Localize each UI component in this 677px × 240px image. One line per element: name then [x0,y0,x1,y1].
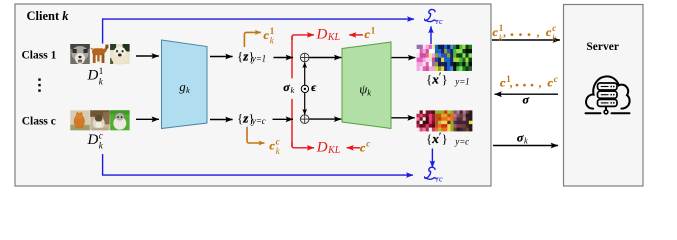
svg-text:c: c [360,140,366,154]
svg-text:1: 1 [99,66,104,76]
svg-text:Client k: Client k [27,9,70,23]
svg-text:c: c [465,136,469,146]
svg-text:σ: σ [283,80,290,94]
svg-text:c: c [365,27,371,41]
svg-text:c: c [269,138,275,152]
svg-text:,: , [503,25,506,39]
svg-text:rc: rc [436,174,443,184]
svg-text:c: c [500,76,506,90]
svg-text:1: 1 [270,26,275,36]
svg-text:k: k [291,85,295,95]
svg-text:k: k [552,33,557,43]
svg-text:1: 1 [465,77,470,87]
svg-text:c: c [276,136,280,146]
svg-text:k: k [367,87,371,97]
svg-text:c: c [546,25,552,39]
svg-text:c: c [548,76,554,90]
svg-text:Class c: Class c [22,116,56,128]
svg-text:σ: σ [517,131,524,145]
svg-text:y: y [454,77,459,87]
svg-text:σ: σ [523,92,530,106]
svg-text:k: k [524,135,528,145]
svg-text:c: c [99,130,103,140]
svg-text:rc: rc [436,16,443,26]
svg-text:,: , [539,76,542,90]
svg-text:y: y [251,54,256,64]
svg-text:1: 1 [371,26,376,36]
svg-text:y: y [251,116,256,126]
svg-text:c: c [264,28,270,42]
svg-text:c: c [262,116,266,126]
svg-text:c: c [493,25,499,39]
svg-text:c: c [554,74,558,84]
svg-text:D: D [87,132,99,148]
svg-text:Server: Server [586,41,619,53]
svg-text:1: 1 [262,54,267,64]
svg-text:Class 1: Class 1 [22,50,57,62]
svg-text:,: , [537,25,540,39]
svg-text:{x′}: {x′} [426,70,448,86]
svg-text:D: D [316,27,328,43]
svg-text:c: c [366,139,370,149]
svg-text:KL: KL [327,145,341,156]
svg-text:ϵ: ϵ [311,82,316,94]
svg-text:D: D [316,140,328,156]
svg-text:{x′}: {x′} [426,130,448,146]
svg-text:KL: KL [327,32,341,43]
svg-text:c: c [552,23,556,33]
svg-text:D: D [87,68,99,84]
svg-text:y: y [454,136,459,146]
svg-text:,: , [510,76,513,90]
svg-text:k: k [186,85,190,95]
